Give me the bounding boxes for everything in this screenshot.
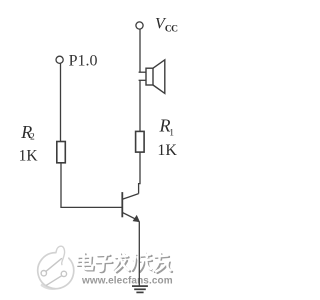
wire Vcc to speaker bbox=[139, 29, 141, 72]
watermark logo circle (elecfans) bbox=[38, 246, 74, 288]
wire R2 to corner bbox=[60, 163, 62, 208]
svg-text:www.elecfans.com: www.elecfans.com bbox=[81, 275, 173, 286]
resistor R1 bbox=[136, 131, 145, 152]
svg-text:P1.0: P1.0 bbox=[69, 53, 98, 70]
transistor Q1 emitter bbox=[122, 212, 136, 219]
wire corner to base bbox=[60, 206, 122, 208]
wire R1 to collector bbox=[139, 152, 140, 194]
svg-text:1K: 1K bbox=[157, 142, 177, 159]
wire P1.0 to R2 bbox=[60, 63, 62, 141]
wire emitter to ground bbox=[138, 222, 140, 287]
transistor Q1 collector bbox=[122, 194, 138, 200]
speaker body bbox=[146, 68, 153, 85]
svg-text:CC: CC bbox=[165, 24, 178, 34]
terminal Vcc bbox=[136, 22, 143, 29]
svg-text:2: 2 bbox=[30, 133, 35, 143]
svg-text:1K: 1K bbox=[19, 148, 39, 165]
speaker horn bbox=[153, 60, 165, 94]
ground bbox=[132, 285, 148, 287]
resistor R2 bbox=[57, 142, 66, 163]
terminal P1.0 bbox=[56, 56, 63, 63]
speaker stub bottom bbox=[139, 79, 146, 81]
speaker stub top bbox=[139, 71, 146, 73]
emitter arrowhead bbox=[133, 216, 139, 222]
wire speaker to R1 bbox=[139, 80, 141, 131]
svg-text:1: 1 bbox=[169, 128, 174, 138]
transistor Q1 base bar bbox=[121, 192, 123, 217]
